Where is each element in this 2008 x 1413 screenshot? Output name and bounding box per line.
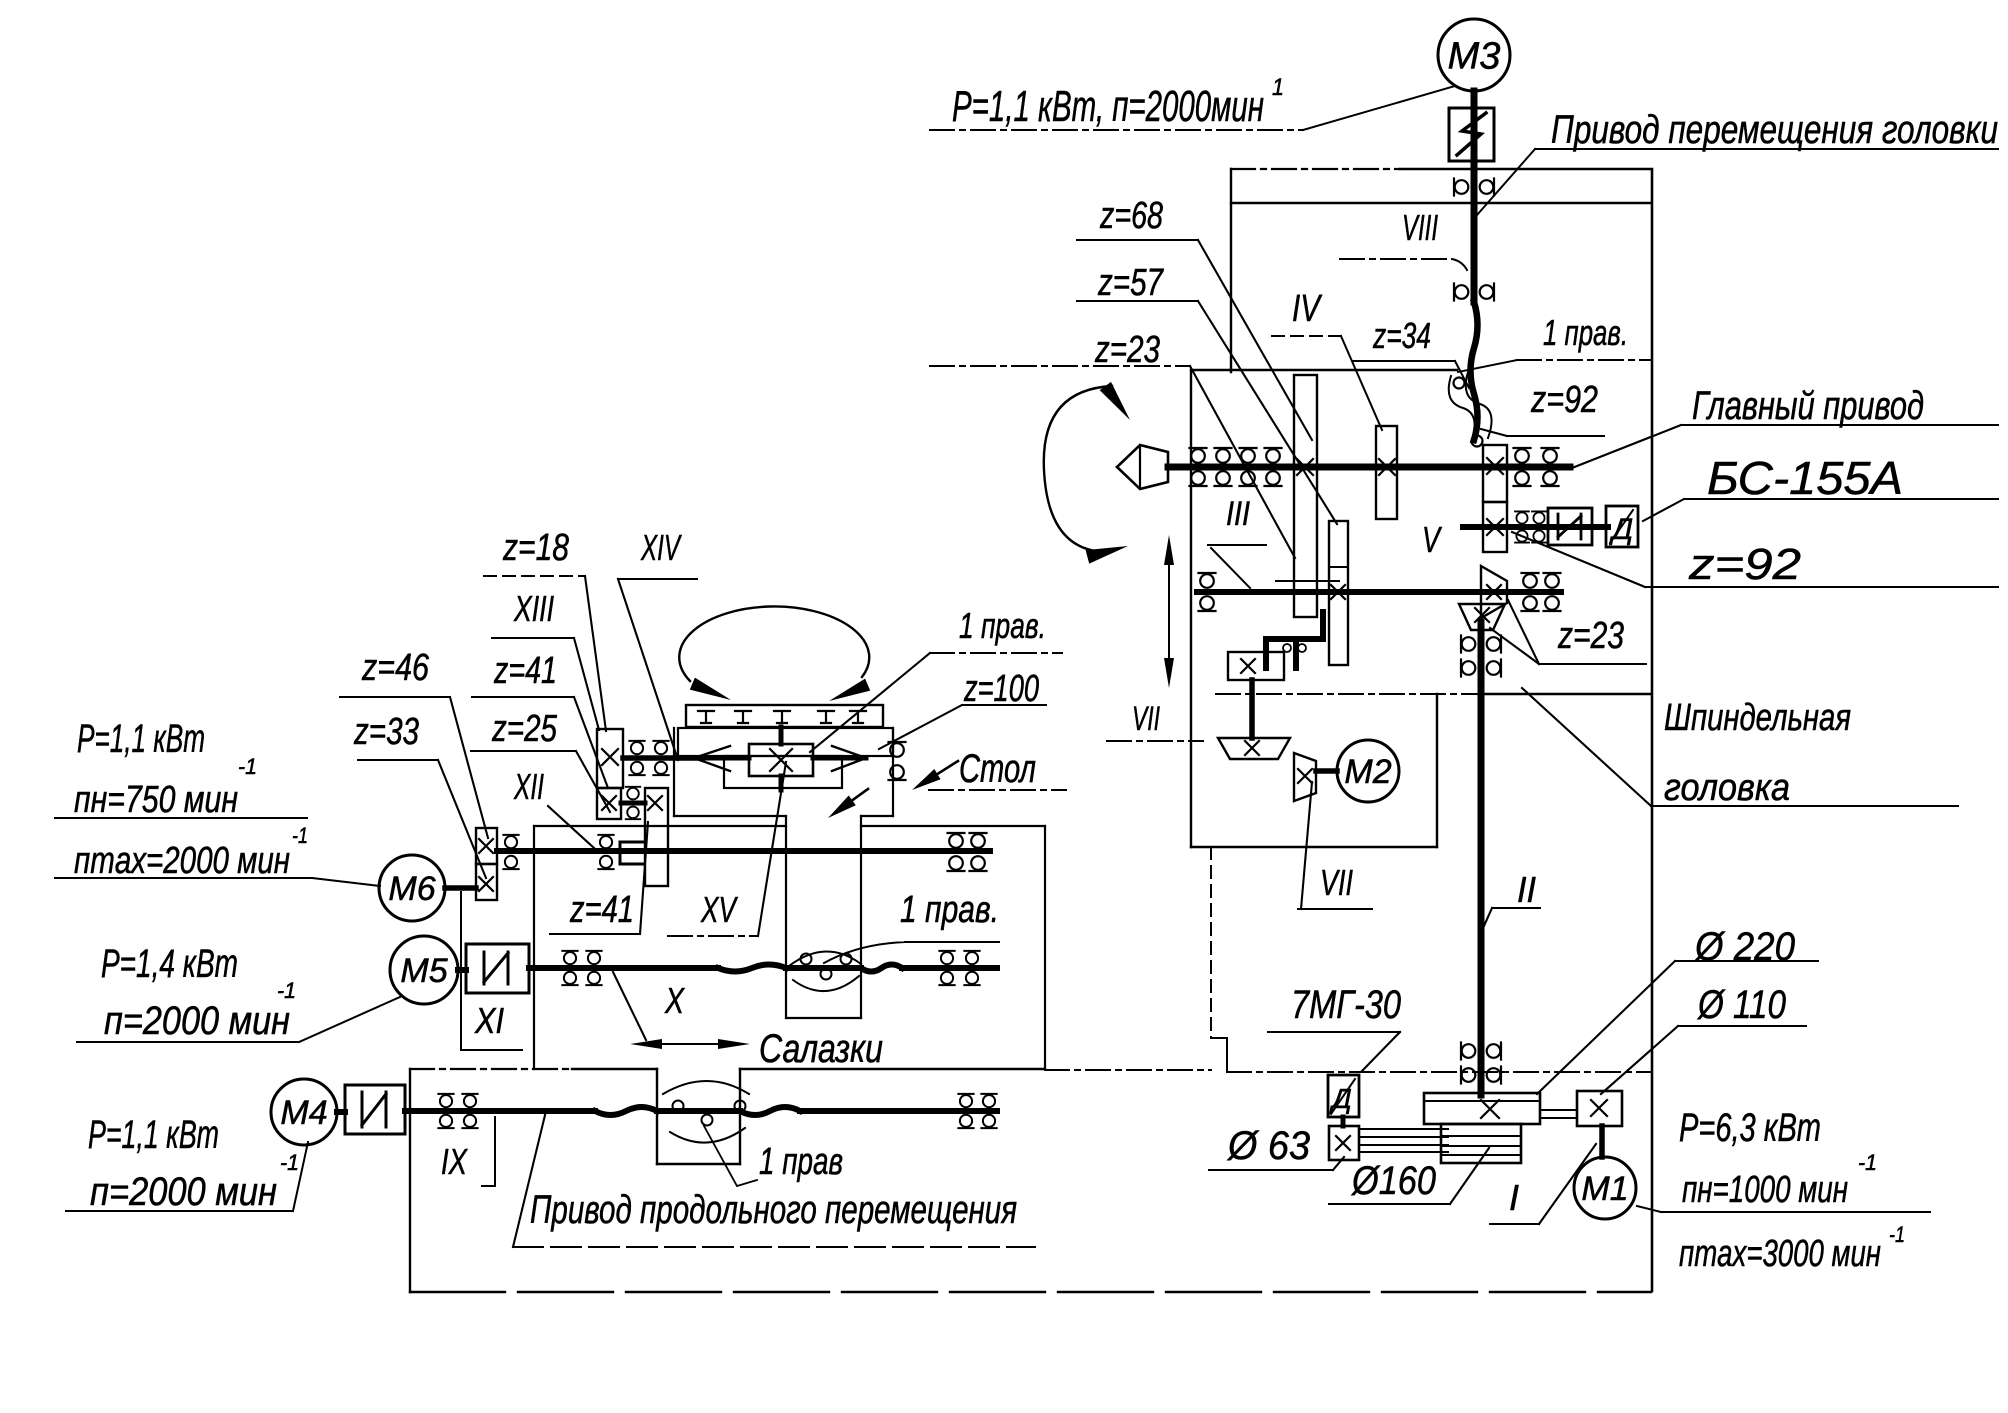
gear z=100 nut	[749, 727, 813, 790]
bearing right of M6 box	[503, 835, 518, 869]
shaft IX flexible left	[595, 1107, 657, 1115]
shaft X right segment	[902, 965, 997, 971]
svg-text:М6: М6	[388, 870, 435, 908]
svg-text:М5: М5	[400, 952, 447, 990]
label X	[613, 972, 686, 1040]
bearings on shaft II lower	[1461, 1043, 1501, 1084]
vertical travel arrow	[1164, 535, 1174, 688]
label V	[1422, 519, 1442, 560]
svg-text:-1: -1	[292, 823, 308, 848]
bearings on shaft XII right	[948, 833, 987, 871]
tachometer Д on shaft V	[1606, 506, 1638, 547]
shaft VIII upper segment	[1471, 91, 1478, 302]
labels M1 parameters	[1679, 1106, 1905, 1275]
svg-text:Привод продольного перемещения: Привод продольного перемещения	[530, 1188, 1017, 1232]
gear z=23 pinion box	[1228, 652, 1284, 680]
svg-text:Главный привод: Главный привод	[1692, 384, 1924, 428]
label z=68	[1077, 195, 1312, 440]
screw nut on shaft X	[786, 951, 861, 991]
table body outline	[674, 728, 893, 816]
motor M6	[379, 855, 445, 921]
rotation arrow of spindle	[1044, 382, 1130, 564]
svg-text:XIII: XIII	[513, 588, 554, 629]
svg-text:пmax=2000 мин: пmax=2000 мин	[74, 840, 290, 882]
svg-text:Ø160: Ø160	[1350, 1159, 1436, 1203]
svg-text:z=25: z=25	[491, 708, 557, 750]
shaft XIII-2 stub	[621, 801, 645, 806]
svg-text:IX: IX	[441, 1141, 469, 1182]
M2 shaft stub	[1316, 768, 1337, 774]
bearing on stub	[626, 787, 640, 819]
gear IV on spindle	[1376, 426, 1397, 519]
bevel gear pair at M2 vertical	[1294, 753, 1316, 801]
label XII	[513, 766, 594, 848]
motor M1	[1574, 1157, 1636, 1219]
svg-text:z=46: z=46	[361, 647, 429, 689]
svg-text:XII: XII	[513, 766, 544, 807]
svg-text:Стол: Стол	[959, 747, 1036, 791]
column lower left dashed edge	[1211, 847, 1227, 1071]
shaft V	[1463, 524, 1608, 530]
shift fork mark	[1208, 545, 1266, 588]
label z=23 (right)	[1490, 600, 1646, 664]
label z=57	[1077, 262, 1337, 524]
svg-text:z=34: z=34	[1372, 315, 1431, 356]
svg-text:-1: -1	[238, 754, 257, 779]
shaft XIII	[623, 755, 697, 761]
svg-text:P=1,1 кВт: P=1,1 кВт	[88, 1113, 219, 1157]
label 1 прав. (head drive)	[1458, 312, 1652, 372]
label 7МГ-30	[1268, 983, 1401, 1071]
label Привод продольного перемещения	[513, 1111, 1035, 1247]
svg-text:z=57: z=57	[1097, 262, 1164, 304]
bearings on shaft II upper	[1461, 636, 1501, 677]
label z=41 (upper)	[472, 650, 608, 788]
gear z=92 lower on shaft V	[1483, 502, 1507, 552]
svg-text:z=92: z=92	[1530, 379, 1598, 421]
gear z=25	[597, 788, 621, 819]
leader M1 to labels	[1637, 1206, 1930, 1212]
bearings on shaft IX left	[438, 1094, 477, 1128]
gear d63 with shaft stub	[1329, 1117, 1359, 1160]
screw nut on shaft IX	[657, 1081, 749, 1143]
shaft IX right segment	[800, 1108, 997, 1114]
pulley d220	[1424, 1093, 1577, 1124]
label VII (left)	[1107, 700, 1203, 741]
svg-text:P=6,3 кВт: P=6,3 кВт	[1679, 1106, 1821, 1150]
svg-text:БС-155А: БС-155А	[1707, 452, 1903, 504]
label XIV	[618, 527, 697, 760]
motor M5	[390, 936, 458, 1004]
bearing on shaft XII mid	[598, 835, 613, 869]
svg-text:пн=750 мин: пн=750 мин	[74, 779, 238, 821]
svg-text:Ø 220: Ø 220	[1693, 925, 1795, 969]
shaft X left segment	[529, 965, 718, 971]
column right edge	[1651, 169, 1654, 1291]
table leadscrew right arrow	[813, 746, 866, 771]
bearings on shaft IX right	[958, 1094, 996, 1128]
shaft X flexible right	[861, 965, 902, 972]
svg-text:z=33: z=33	[353, 711, 419, 753]
underline M4 labels	[66, 1142, 308, 1211]
svg-text:III: III	[1226, 495, 1250, 533]
bearing at table right	[889, 742, 906, 780]
arrow to table 1	[912, 761, 958, 790]
svg-text:P=1,4 кВт: P=1,4 кВт	[101, 942, 238, 986]
svg-text:7МГ-30: 7МГ-30	[1291, 983, 1401, 1027]
svg-text:Салазки: Салазки	[759, 1027, 883, 1071]
svg-text:XIV: XIV	[640, 527, 682, 568]
table leadscrew left arrow	[694, 746, 749, 771]
column left edge	[1230, 169, 1232, 372]
svg-text:пн=1000 мин: пн=1000 мин	[1682, 1169, 1848, 1211]
label diameter 63	[1209, 1124, 1344, 1170]
svg-text:z=41: z=41	[569, 889, 634, 931]
svg-text:z=41: z=41	[493, 650, 557, 692]
gear z=57 sliding block	[1329, 521, 1348, 665]
gear d110	[1577, 1091, 1622, 1126]
svg-text:II: II	[1517, 869, 1536, 910]
clutch И on shaft IX	[337, 1085, 405, 1134]
svg-text:1 прав.: 1 прав.	[1543, 312, 1628, 353]
svg-text:М3: М3	[1448, 36, 1501, 78]
leader line M3 label	[930, 86, 1455, 130]
label II	[1484, 869, 1540, 926]
motor M2	[1337, 740, 1399, 802]
labels M5 parameters	[101, 942, 296, 1043]
label VIII	[1340, 207, 1467, 270]
svg-text:-1: -1	[1889, 1222, 1905, 1247]
svg-text:VII: VII	[1132, 700, 1160, 738]
underlines M6 labels	[55, 818, 380, 886]
gear z=18	[597, 729, 623, 788]
label I	[1490, 1144, 1596, 1224]
svg-text:1: 1	[1272, 74, 1284, 101]
svg-text:z=68: z=68	[1099, 195, 1163, 237]
labels M4 parameters	[88, 1113, 299, 1214]
svg-text:п=2000 мин: п=2000 мин	[104, 999, 290, 1043]
svg-text:z=18: z=18	[502, 527, 569, 569]
bearings on shaft X right	[939, 951, 979, 985]
svg-text:Ø 63: Ø 63	[1226, 1124, 1310, 1168]
label z=25	[471, 708, 610, 812]
label z=18	[484, 527, 606, 731]
label z=34	[1353, 315, 1469, 388]
label Салазки	[759, 1027, 883, 1071]
motor M4	[271, 1079, 337, 1145]
encoder Д on bed	[1328, 1075, 1359, 1117]
shaft X flexible left	[718, 965, 786, 972]
spindle nose cone	[1117, 445, 1168, 489]
svg-text:п=2000 мин: п=2000 мин	[90, 1170, 277, 1214]
label XV	[668, 762, 786, 936]
label P=1,1 кВт, п=2000мин -1 (M3)	[952, 74, 1284, 131]
sliding sleeve on XII	[620, 842, 643, 864]
M6 shaft stub	[445, 885, 476, 891]
svg-text:-1: -1	[277, 978, 296, 1003]
svg-text:М4: М4	[280, 1094, 327, 1132]
electromagnetic clutch on shaft VIII	[1449, 108, 1494, 161]
label XI	[461, 892, 522, 1050]
label 1 прав (bed)	[704, 1126, 843, 1186]
svg-text:P=1,1 кВт, п=2000мин: P=1,1 кВт, п=2000мин	[952, 82, 1264, 131]
shift rail line	[1276, 580, 1339, 582]
label Шпиндельная головка	[1522, 688, 1958, 809]
label diameter 110	[1601, 983, 1806, 1094]
svg-text:Привод перемещения головки: Привод перемещения головки	[1551, 108, 1998, 152]
svg-text:1 прав: 1 прав	[759, 1141, 843, 1183]
label Привод перемещения головки	[1551, 108, 1998, 152]
labels M6 parameters	[74, 717, 308, 882]
clutch И on shaft V	[1548, 508, 1592, 545]
spindle shaft III	[1168, 464, 1570, 471]
label z=33	[353, 711, 486, 878]
svg-text:IV: IV	[1292, 288, 1323, 330]
shaft II vertical	[1478, 622, 1485, 1095]
bed top dash-dot line	[1045, 1070, 1651, 1072]
svg-text:Ø 110: Ø 110	[1696, 983, 1786, 1027]
svg-text:головка: головка	[1664, 767, 1790, 809]
shaft XII	[497, 848, 990, 854]
svg-text:z=92: z=92	[1688, 540, 1801, 589]
arrow to table 2	[828, 789, 868, 818]
svg-text:1 прав.: 1 прав.	[959, 605, 1046, 646]
bevel gear pair at M2 horizontal	[1218, 738, 1290, 759]
gearbox z=46/z=33 on M6	[476, 828, 497, 900]
gear z=92 upper on spindle	[1483, 445, 1507, 502]
shaft IX flexible right	[740, 1107, 800, 1115]
svg-text:z=23: z=23	[1094, 329, 1160, 371]
gear z=41 tall	[645, 788, 668, 886]
gear block on sliding sleeve	[1266, 612, 1323, 668]
svg-text:пmax=3000 мин: пmax=3000 мин	[1679, 1233, 1881, 1275]
bed outline	[410, 1069, 1651, 1292]
table T-slot plate	[686, 705, 883, 727]
motor M3	[1438, 19, 1510, 91]
table plate 3	[724, 756, 842, 788]
shaft VI	[1197, 589, 1561, 595]
bearings on shaft X left	[562, 951, 601, 985]
svg-text:М2: М2	[1344, 753, 1391, 791]
svg-text:I: I	[1509, 1177, 1519, 1218]
shaft VIII flexible section	[1471, 302, 1478, 440]
svg-text:-1: -1	[280, 1150, 299, 1175]
svg-text:М1: М1	[1581, 1170, 1628, 1208]
label z=100	[879, 668, 1046, 749]
label XIII	[492, 588, 599, 730]
svg-text:VII: VII	[1320, 862, 1353, 903]
gear z=68 on spindle	[1294, 375, 1317, 617]
spindle head box	[1191, 370, 1651, 847]
bearings on shaft V	[1515, 511, 1546, 542]
label 1 прав. (table)	[810, 605, 1062, 752]
label z=92 (lower)	[1512, 532, 1998, 589]
table pillar	[786, 816, 861, 1018]
label Стол	[929, 747, 1066, 791]
bevel gear z=23 on shaft II	[1459, 604, 1505, 630]
svg-text:VIII: VIII	[1402, 207, 1438, 248]
bearing on shaft VIII top	[1454, 179, 1494, 196]
label z=92 (upper)	[1481, 379, 1604, 436]
label VII (bottom)	[1298, 782, 1372, 909]
label z=46	[340, 647, 488, 838]
label 1 прав. (saddle)	[824, 889, 999, 963]
table plate 2	[678, 728, 893, 756]
svg-text:Шпиндельная: Шпиндельная	[1664, 697, 1851, 739]
svg-text:V: V	[1422, 519, 1442, 560]
svg-text:-1: -1	[1858, 1150, 1877, 1175]
label diameter 220	[1537, 925, 1818, 1094]
M1 shaft stub	[1599, 1126, 1605, 1157]
belt d63-d160	[1359, 1129, 1448, 1152]
shaft IX left segment	[405, 1108, 595, 1114]
bearings on shaft VI right	[1522, 573, 1561, 611]
rotation arrow of table	[679, 606, 870, 701]
bearing on shaft VI left	[1199, 573, 1216, 611]
vertical stub to bevel	[1249, 680, 1255, 738]
bearing on shaft VIII middle	[1454, 284, 1494, 301]
travel arrow Салазки	[630, 1039, 750, 1049]
bearings on spindle left	[1190, 448, 1282, 486]
bevel gear z=23 on shaft VI	[1481, 566, 1507, 618]
pulley d160	[1441, 1124, 1521, 1163]
svg-text:XV: XV	[700, 889, 738, 930]
label Главный привод	[1572, 384, 1998, 468]
column top edge	[1231, 169, 1650, 203]
svg-text:XI: XI	[474, 1000, 504, 1041]
label IV	[1272, 288, 1382, 430]
belt drive pulleys on VIII	[1449, 372, 1492, 447]
svg-text:P=1,1 кВт: P=1,1 кВт	[77, 717, 205, 761]
label IX	[441, 1117, 495, 1186]
underline M5 labels	[77, 997, 400, 1042]
svg-text:X: X	[664, 980, 685, 1021]
svg-text:z=100: z=100	[963, 668, 1039, 710]
bearings on shaft XIII	[629, 741, 668, 775]
label БС-155А	[1643, 452, 1998, 521]
leader line Привод перемещения головки	[1477, 149, 1998, 215]
label diameter 160	[1329, 1148, 1489, 1204]
svg-text:1 прав.: 1 прав.	[900, 889, 999, 931]
label z=23 (left)	[930, 329, 1295, 558]
svg-text:Д: Д	[1329, 1083, 1352, 1114]
saddle box	[534, 826, 1045, 1069]
label III	[1226, 495, 1250, 533]
svg-text:z=23: z=23	[1557, 615, 1624, 657]
label z=41 (saddle)	[550, 822, 648, 934]
clutch И on shaft X	[458, 944, 529, 993]
svg-text:Д: Д	[1609, 513, 1633, 546]
bearings on spindle right	[1514, 448, 1559, 486]
